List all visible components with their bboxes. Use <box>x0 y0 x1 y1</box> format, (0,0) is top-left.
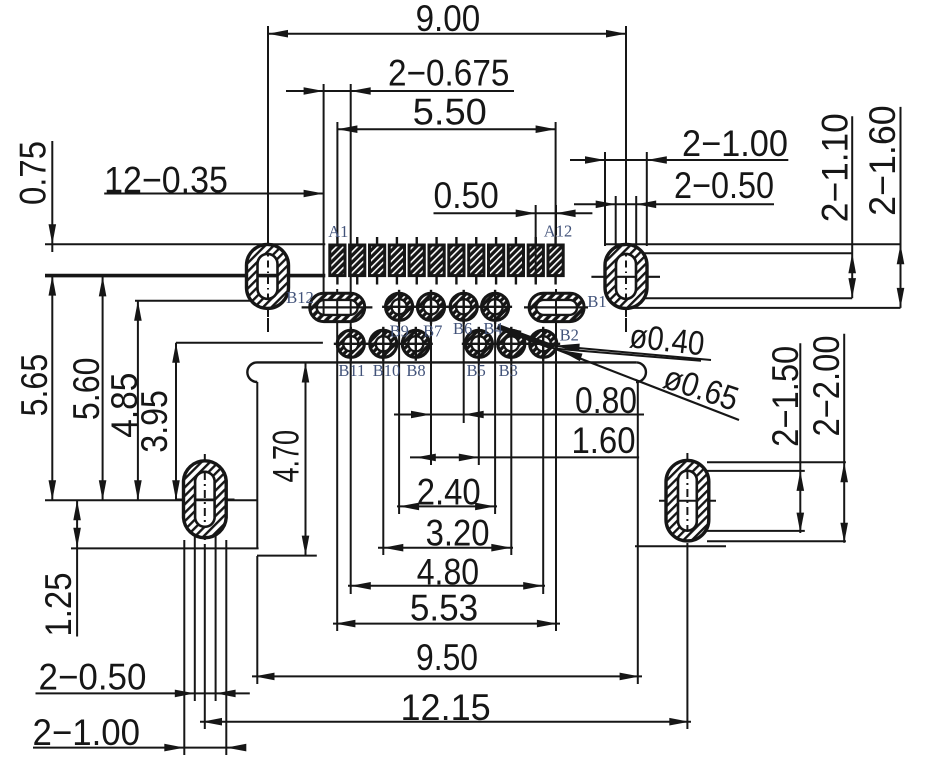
svg-text:0.75: 0.75 <box>13 141 54 205</box>
svg-text:A12: A12 <box>544 222 572 241</box>
svg-text:1.60: 1.60 <box>571 420 635 461</box>
svg-text:3.95: 3.95 <box>134 390 175 453</box>
svg-text:2−0.675: 2−0.675 <box>388 52 509 93</box>
svg-text:2−2.00: 2−2.00 <box>806 335 847 436</box>
svg-text:2−1.50: 2−1.50 <box>765 346 806 447</box>
svg-text:5.60: 5.60 <box>66 358 107 421</box>
svg-text:9.00: 9.00 <box>416 0 481 39</box>
svg-text:B10: B10 <box>373 361 401 380</box>
svg-text:5.50: 5.50 <box>413 92 487 133</box>
svg-text:B8: B8 <box>406 361 425 380</box>
svg-text:2−0.50: 2−0.50 <box>39 657 147 698</box>
svg-text:B1: B1 <box>587 292 606 311</box>
svg-text:0.80: 0.80 <box>575 380 637 421</box>
svg-text:12.15: 12.15 <box>401 687 491 728</box>
svg-text:B9: B9 <box>390 322 409 341</box>
svg-text:B11: B11 <box>338 361 365 380</box>
svg-text:B4: B4 <box>483 319 502 338</box>
svg-text:9.50: 9.50 <box>416 637 478 678</box>
svg-text:A1: A1 <box>328 222 348 241</box>
svg-text:12−0.35: 12−0.35 <box>104 159 228 200</box>
svg-text:0.50: 0.50 <box>434 175 499 216</box>
svg-text:B5: B5 <box>466 361 485 380</box>
svg-text:3.20: 3.20 <box>426 513 490 554</box>
svg-text:B3: B3 <box>499 361 518 380</box>
svg-text:B6: B6 <box>453 319 472 338</box>
svg-text:2−0.50: 2−0.50 <box>674 165 774 206</box>
svg-text:5.53: 5.53 <box>410 587 478 628</box>
svg-text:2.40: 2.40 <box>417 472 481 513</box>
svg-text:2−1.00: 2−1.00 <box>33 712 141 753</box>
svg-text:1.25: 1.25 <box>38 573 79 637</box>
svg-text:B12: B12 <box>286 288 314 307</box>
svg-text:4.70: 4.70 <box>265 430 306 483</box>
svg-text:2−1.00: 2−1.00 <box>682 123 788 164</box>
svg-text:2−1.10: 2−1.10 <box>815 113 856 222</box>
svg-text:B7: B7 <box>423 322 442 341</box>
svg-text:5.65: 5.65 <box>14 354 55 417</box>
svg-text:2−1.60: 2−1.60 <box>862 105 903 216</box>
svg-text:B2: B2 <box>560 326 579 345</box>
